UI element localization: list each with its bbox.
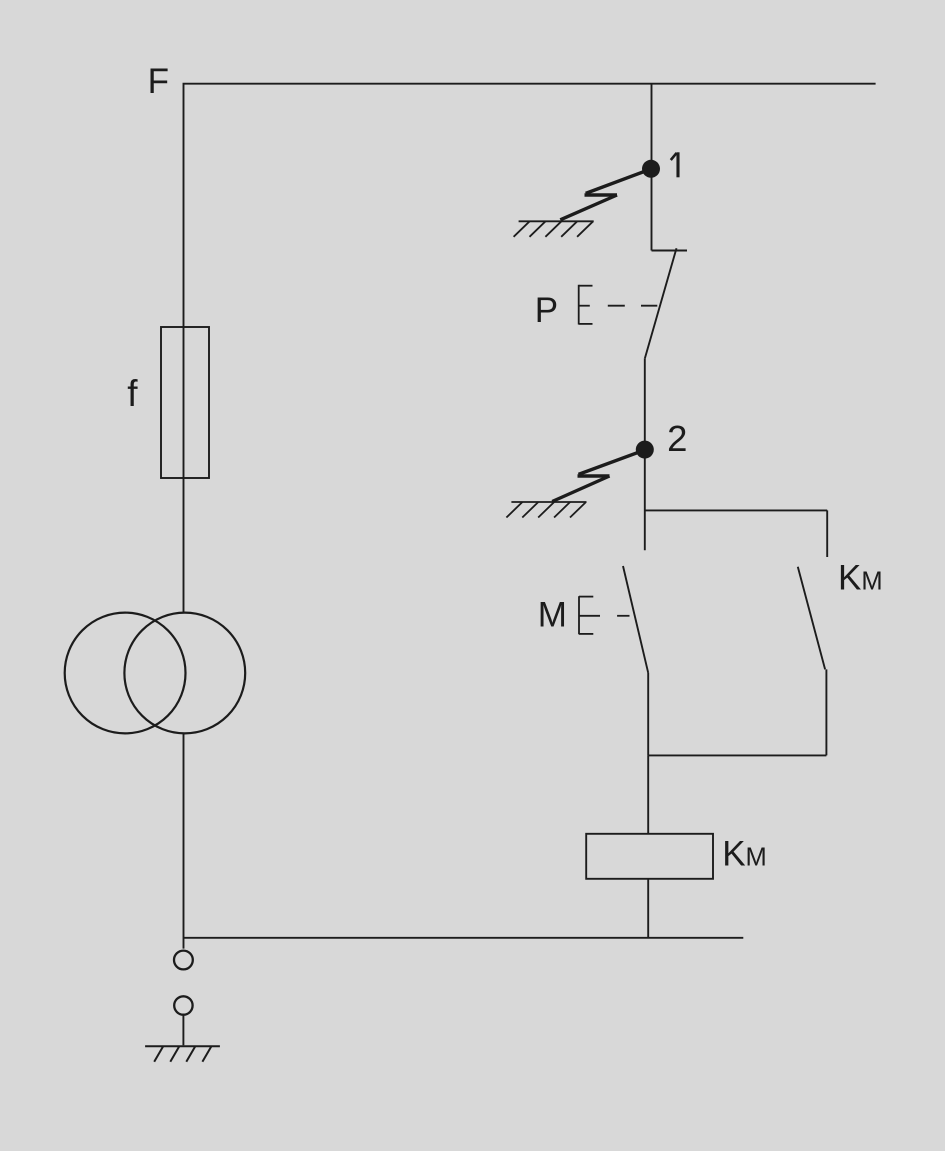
wire below M blade: [647, 673, 649, 756]
wire ground stem: [182, 1015, 184, 1046]
actuator bracket M: [579, 596, 630, 634]
fault arrow bolt at node 1: [560, 169, 651, 220]
wire right branch vertical: [826, 510, 828, 557]
terminal circle lower: [174, 996, 192, 1014]
wire bottom join horizontal: [648, 754, 826, 756]
svg-text:M: M: [538, 596, 567, 635]
transformer left circle: [65, 613, 186, 734]
node 1 junction dot: [642, 160, 660, 178]
wire branch horizontal at node 2: [645, 509, 827, 511]
terminal circle upper: [174, 951, 193, 970]
coil KM: [586, 834, 713, 879]
pushbutton M contact blade (NO): [623, 566, 648, 673]
actuator bracket P: [579, 285, 658, 325]
wire below KM blade: [825, 669, 827, 755]
wire top horizontal: [184, 84, 876, 614]
ground earth at node 1: [514, 221, 594, 237]
svg-text:f: f: [127, 373, 138, 414]
contactor contact KM blade (NO): [798, 567, 825, 670]
wire right vertical top: [651, 84, 653, 251]
transformer right circle: [124, 613, 245, 734]
svg-text:2: 2: [667, 418, 687, 459]
wire left vertical below transformer: [183, 733, 185, 949]
ground earth bottom: [145, 1046, 220, 1062]
fuse f: [161, 327, 209, 478]
wire coil to bottom line: [647, 879, 649, 938]
svg-text:F: F: [148, 62, 169, 101]
pushbutton P contact (NC blade): [652, 250, 688, 252]
node 2 junction dot: [636, 441, 654, 459]
wire vertical P to node 2: [644, 358, 646, 550]
label 1: [671, 152, 678, 177]
fault arrow bolt at node 2: [552, 450, 645, 502]
wire join to coil: [647, 755, 649, 833]
wire bottom horizontal: [184, 937, 744, 939]
svg-text:P: P: [535, 291, 558, 330]
ground earth at node 2: [506, 502, 586, 518]
